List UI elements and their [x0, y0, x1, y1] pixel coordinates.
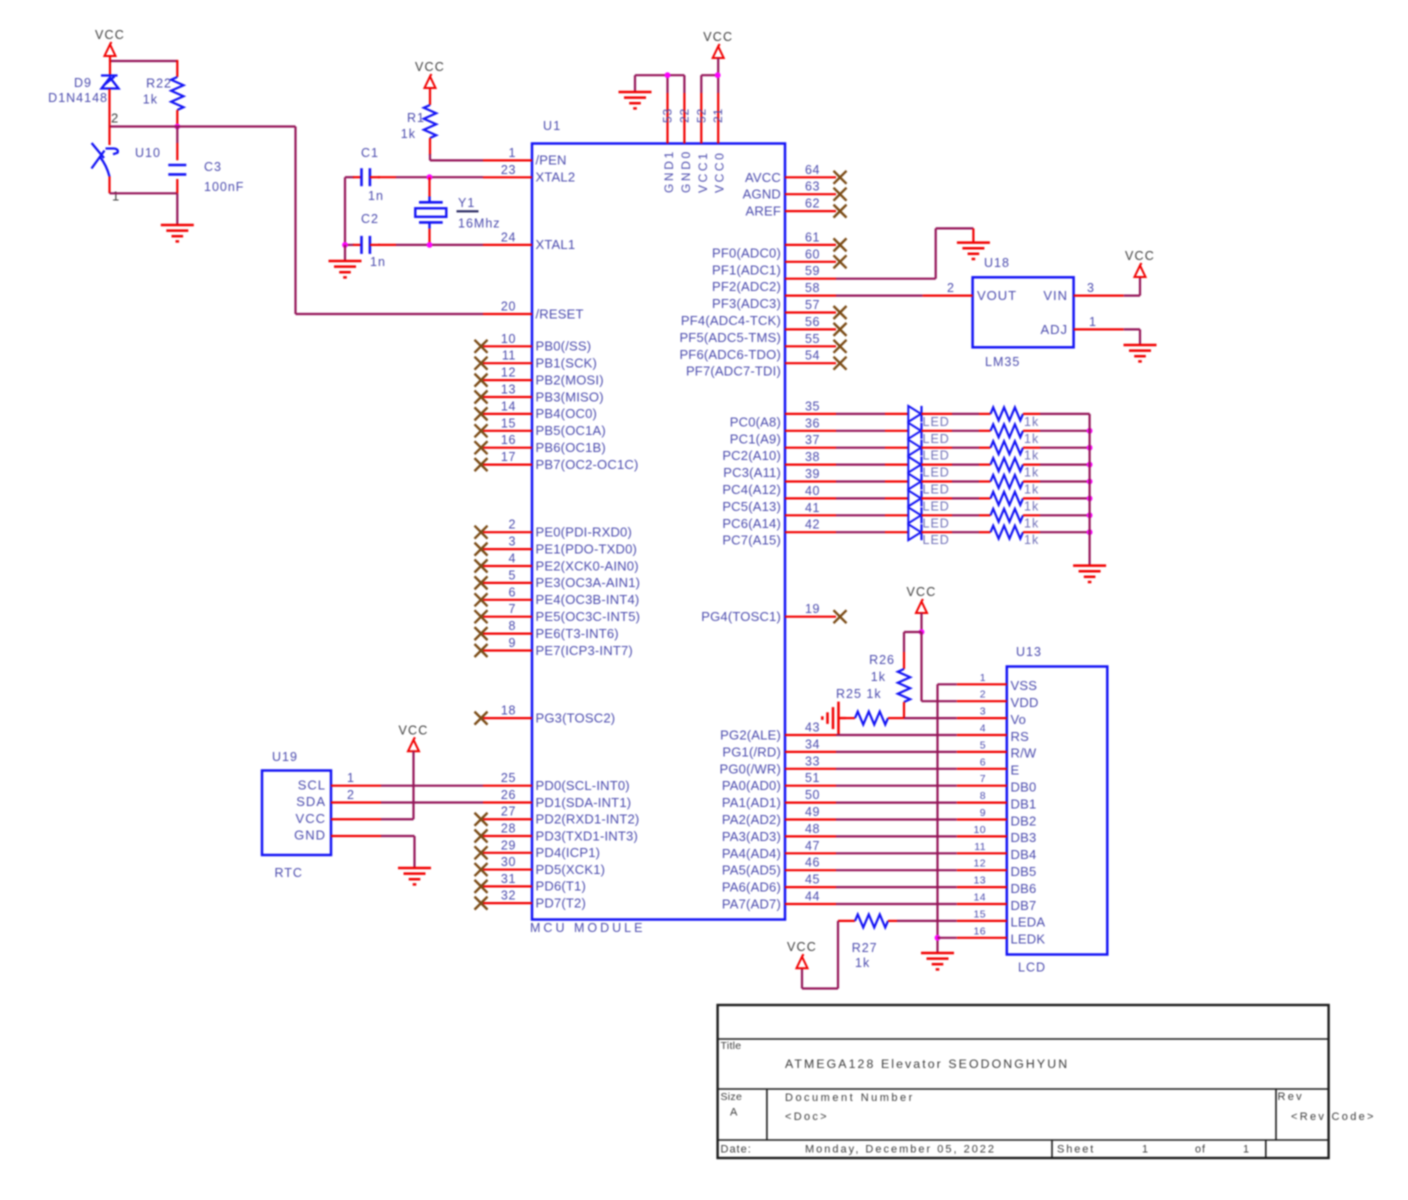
- svg-text:50: 50: [805, 788, 820, 802]
- svg-text:51: 51: [805, 771, 820, 785]
- svg-text:PB0(/SS): PB0(/SS): [536, 339, 592, 354]
- node junction: [919, 629, 925, 635]
- svg-text:2: 2: [947, 281, 955, 295]
- IC U19 RTC: [262, 771, 331, 856]
- svg-text:MCU MODULE: MCU MODULE: [530, 921, 645, 935]
- svg-text:R22: R22: [146, 77, 172, 91]
- svg-text:/RESET: /RESET: [536, 306, 584, 321]
- resistor 1k row 4: [991, 458, 1024, 471]
- VCC symbol above R26: [907, 585, 937, 613]
- IC U18 LM35: [973, 277, 1074, 347]
- VCC symbol lower-left of R27: [787, 940, 817, 968]
- svg-text:38: 38: [805, 450, 820, 464]
- svg-text:1k: 1k: [1024, 466, 1039, 480]
- node junction: [342, 242, 348, 248]
- svg-text:LED: LED: [923, 415, 950, 429]
- VCC symbol above R1: [415, 60, 445, 88]
- svg-text:43: 43: [805, 721, 820, 735]
- diode D9: [101, 76, 119, 89]
- wire PC7 to LED: [836, 531, 885, 533]
- svg-text:PD4(ICP1): PD4(ICP1): [536, 845, 601, 860]
- svg-text:8: 8: [508, 619, 516, 633]
- pin 47 PA4(AD4): [722, 839, 836, 861]
- svg-text:PA7(AD7): PA7(AD7): [722, 897, 781, 912]
- VCC symbol above U19: [399, 723, 429, 751]
- wire: [378, 176, 396, 178]
- pin 3 PE1(PDO-TXD0): [475, 535, 638, 557]
- pin 1 VSS of U13: [957, 672, 1037, 693]
- VCC symbol near U18: [1125, 249, 1155, 277]
- svg-text:1k: 1k: [871, 670, 886, 684]
- svg-text:PE3(OC3A-AIN1): PE3(OC3A-AIN1): [536, 575, 641, 590]
- pin 32 PD7(T2): [475, 889, 587, 911]
- svg-text:52: 52: [694, 108, 708, 123]
- pin 8 DB1 of U13: [957, 790, 1037, 811]
- svg-text:LED: LED: [923, 499, 950, 513]
- svg-text:DB1: DB1: [1011, 796, 1037, 811]
- wire PF3 to U18 VOUT: [836, 295, 923, 297]
- svg-text:12: 12: [974, 858, 986, 870]
- wire: [378, 244, 396, 246]
- pin 5 R/W of U13: [957, 739, 1037, 760]
- pin 48 PA3(AD3): [722, 822, 836, 844]
- svg-text:33: 33: [805, 754, 820, 768]
- resistor 1k row 5: [991, 475, 1024, 488]
- svg-text:46: 46: [805, 856, 820, 870]
- pin 25 PD0(SCL-INT0): [483, 771, 630, 793]
- svg-text:1n: 1n: [368, 189, 384, 203]
- svg-text:PG3(TOSC2): PG3(TOSC2): [536, 710, 616, 725]
- svg-text:29: 29: [501, 838, 516, 852]
- svg-text:5: 5: [508, 568, 516, 582]
- svg-text:PE7(ICP3-INT7): PE7(ICP3-INT7): [536, 643, 633, 658]
- IC U1 MCU MODULE: [532, 144, 785, 920]
- svg-text:LEDA: LEDA: [1011, 915, 1046, 930]
- svg-text:VCC0: VCC0: [713, 151, 727, 193]
- wire: [717, 58, 719, 75]
- svg-text:SDA: SDA: [296, 794, 326, 809]
- svg-text:1: 1: [1243, 1144, 1250, 1156]
- pin 13 PB3(MISO): [475, 383, 604, 405]
- svg-text:20: 20: [501, 300, 516, 314]
- svg-text:1k: 1k: [1024, 449, 1039, 463]
- svg-text:2: 2: [980, 689, 986, 701]
- capacitor C1: [345, 176, 354, 178]
- svg-text:31: 31: [501, 872, 516, 886]
- svg-text:PA3(AD3): PA3(AD3): [722, 829, 781, 844]
- pin 58 PF3(ADC3): [712, 281, 836, 311]
- svg-text:30: 30: [501, 855, 516, 869]
- svg-text:3: 3: [1087, 281, 1095, 295]
- wire R27 to VCC: [837, 921, 839, 989]
- wire: [1023, 413, 1040, 415]
- LED D6: [908, 490, 921, 506]
- wire SDA to PD1: [381, 801, 483, 803]
- svg-text:Sheet: Sheet: [1057, 1144, 1095, 1156]
- svg-text:VCC: VCC: [907, 585, 937, 599]
- pin 56 PF5(ADC5-TMS): [679, 315, 846, 345]
- svg-text:1k: 1k: [855, 956, 870, 970]
- wire: [903, 702, 905, 718]
- wire PF2 to ground: [836, 278, 936, 280]
- svg-text:24: 24: [501, 230, 516, 244]
- svg-text:PB6(OC1B): PB6(OC1B): [536, 440, 606, 455]
- pin 16 LEDK of U13: [957, 925, 1046, 946]
- svg-text:100nF: 100nF: [204, 180, 244, 194]
- pin 42 PC7(A15): [722, 518, 836, 548]
- svg-text:58: 58: [805, 281, 820, 295]
- svg-text:LED: LED: [923, 533, 950, 547]
- wire: [922, 464, 953, 466]
- svg-text:VCC: VCC: [415, 60, 445, 74]
- svg-text:VIN: VIN: [1043, 288, 1068, 303]
- wire: [836, 903, 957, 905]
- svg-text:PB7(OC2-OC1C): PB7(OC2-OC1C): [536, 457, 639, 472]
- svg-text:PF6(ADC6-TDO): PF6(ADC6-TDO): [679, 347, 781, 362]
- svg-text:U19: U19: [272, 750, 298, 764]
- pin 30 PD5(XCK1): [475, 855, 606, 877]
- svg-text:10: 10: [501, 332, 516, 346]
- svg-text:Vo: Vo: [1011, 712, 1027, 727]
- wire: [836, 785, 957, 787]
- svg-text:16Mhz: 16Mhz: [458, 217, 501, 231]
- svg-text:PF3(ADC3): PF3(ADC3): [712, 296, 781, 311]
- svg-text:PD0(SCL-INT0): PD0(SCL-INT0): [536, 778, 630, 793]
- pin 28 PD3(TXD1-INT3): [475, 822, 638, 844]
- svg-text:37: 37: [805, 433, 820, 447]
- pin 4 RS of U13: [957, 723, 1029, 744]
- pin 45 PA6(AD6): [722, 873, 836, 895]
- svg-text:VCC: VCC: [95, 28, 125, 42]
- svg-text:R26: R26: [869, 653, 895, 667]
- resistor 1k row 6: [991, 492, 1024, 505]
- svg-text:2: 2: [347, 788, 355, 802]
- svg-text:RS: RS: [1011, 729, 1030, 744]
- wire: [1023, 497, 1040, 499]
- ground under C2: [329, 261, 362, 277]
- svg-text:C3: C3: [204, 160, 222, 174]
- svg-text:PF5(ADC5-TMS): PF5(ADC5-TMS): [679, 330, 781, 345]
- svg-text:DB0: DB0: [1011, 780, 1037, 795]
- ground top-middle: [619, 92, 652, 108]
- pin 1 SCL of U19: [298, 771, 381, 792]
- svg-text:Title: Title: [721, 1040, 742, 1052]
- svg-text:47: 47: [805, 839, 820, 853]
- pin 53 GND1: [661, 75, 677, 193]
- node junction: [1087, 496, 1093, 502]
- svg-text:1: 1: [508, 146, 516, 160]
- svg-text:1n: 1n: [370, 255, 386, 269]
- svg-text:53: 53: [661, 108, 675, 123]
- svg-text:GND1: GND1: [662, 149, 676, 193]
- svg-text:<Doc>: <Doc>: [785, 1111, 829, 1123]
- svg-text:LEDK: LEDK: [1011, 932, 1046, 947]
- svg-text:59: 59: [805, 264, 820, 278]
- node junction: [715, 72, 721, 78]
- pin 26 PD1(SDA-INT1): [483, 788, 631, 810]
- svg-text:VSS: VSS: [1011, 678, 1038, 693]
- pin 11 DB4 of U13: [957, 841, 1037, 862]
- svg-text:C2: C2: [361, 212, 379, 226]
- svg-text:48: 48: [805, 822, 820, 836]
- svg-text:RTC: RTC: [275, 866, 303, 880]
- resistor R26: [898, 669, 910, 702]
- pin GND of U19: [294, 828, 381, 843]
- svg-text:23: 23: [501, 163, 516, 177]
- svg-text:PE2(XCK0-AIN0): PE2(XCK0-AIN0): [536, 558, 639, 573]
- wire: [922, 480, 953, 482]
- svg-text:49: 49: [805, 805, 820, 819]
- ground right of U18: [1124, 345, 1157, 361]
- svg-text:/PEN: /PEN: [536, 153, 567, 168]
- pin 14 DB7 of U13: [957, 892, 1037, 913]
- svg-text:E: E: [1011, 763, 1020, 778]
- svg-text:<Rev Code>: <Rev Code>: [1291, 1111, 1376, 1123]
- svg-text:PA0(AD0): PA0(AD0): [722, 778, 781, 793]
- VCC symbol top-middle: [703, 30, 733, 58]
- svg-text:63: 63: [805, 180, 820, 194]
- pin 2 SDA of U19: [296, 788, 381, 809]
- svg-text:U18: U18: [984, 256, 1010, 270]
- svg-text:PC2(A10): PC2(A10): [722, 448, 781, 463]
- svg-text:36: 36: [805, 416, 820, 430]
- pin 59 PF2(ADC2): [712, 264, 836, 294]
- svg-text:LED: LED: [923, 516, 950, 530]
- svg-text:11: 11: [502, 349, 516, 363]
- node junction: [1087, 462, 1093, 468]
- wire: [897, 920, 957, 922]
- wire: [922, 413, 953, 415]
- pin 24 XTAL1: [483, 230, 575, 252]
- svg-text:60: 60: [805, 247, 820, 261]
- wire PC2 to LED: [836, 447, 885, 449]
- svg-text:D1N4148: D1N4148: [48, 91, 108, 105]
- wire: [108, 127, 110, 146]
- svg-text:19: 19: [805, 602, 820, 616]
- pin 22 GND0: [677, 75, 693, 193]
- pin 50 PA1(AD1): [722, 788, 836, 810]
- LED D8: [908, 524, 921, 540]
- pin 2 VDD of U13: [957, 689, 1039, 710]
- LED D5: [908, 474, 921, 490]
- pin 19 PG4(TOSC1): [701, 602, 846, 624]
- svg-text:LM35: LM35: [985, 355, 1020, 369]
- node junction: [935, 935, 941, 941]
- svg-text:Date:: Date:: [721, 1144, 752, 1156]
- svg-text:PB3(MISO): PB3(MISO): [536, 389, 604, 404]
- svg-text:1k: 1k: [1024, 499, 1039, 513]
- pin 1 ADJ: [1074, 328, 1124, 330]
- wire: [836, 852, 957, 854]
- svg-text:8: 8: [980, 790, 986, 802]
- node junction: [427, 174, 433, 180]
- svg-text:PD6(T1): PD6(T1): [536, 879, 587, 894]
- svg-text:Monday, December 05, 2022: Monday, December 05, 2022: [805, 1144, 996, 1156]
- IC U13 LCD: [1007, 667, 1108, 955]
- svg-text:1k: 1k: [1024, 516, 1039, 530]
- svg-text:PB5(OC1A): PB5(OC1A): [536, 423, 606, 438]
- svg-text:1k: 1k: [1024, 483, 1039, 497]
- pin 23 XTAL2: [483, 163, 575, 185]
- LED D4: [908, 457, 921, 473]
- svg-text:40: 40: [805, 484, 820, 498]
- svg-text:LCD: LCD: [1018, 961, 1046, 975]
- svg-text:PG4(TOSC1): PG4(TOSC1): [701, 609, 781, 624]
- resistor 1k row 7: [991, 509, 1024, 522]
- svg-text:R25 1k: R25 1k: [836, 687, 882, 701]
- wire to /RESET: [294, 127, 296, 315]
- pin 2 PE0(PDI-RXD0): [475, 518, 633, 540]
- svg-text:1k: 1k: [1024, 533, 1039, 547]
- svg-text:1k: 1k: [1024, 432, 1039, 446]
- LED D1: [908, 406, 921, 422]
- svg-text:PF0(ADC0): PF0(ADC0): [712, 245, 781, 260]
- svg-text:21: 21: [711, 108, 725, 123]
- svg-text:DB5: DB5: [1011, 864, 1037, 879]
- svg-text:R1: R1: [407, 111, 425, 125]
- pin 21 VCC0: [711, 75, 727, 193]
- svg-text:GND0: GND0: [679, 149, 693, 193]
- wire VSS to ground bus: [938, 683, 957, 685]
- wire: [836, 734, 957, 736]
- svg-text:PF2(ADC2): PF2(ADC2): [712, 279, 781, 294]
- svg-text:1k: 1k: [1024, 415, 1039, 429]
- svg-text:VCC: VCC: [703, 30, 733, 44]
- svg-text:45: 45: [805, 873, 820, 887]
- pin 43 PG2(ALE): [720, 721, 836, 743]
- pin 29 PD4(ICP1): [475, 838, 601, 860]
- svg-text:16: 16: [974, 925, 986, 937]
- svg-text:42: 42: [805, 518, 820, 532]
- svg-text:5: 5: [980, 739, 986, 751]
- svg-text:Size: Size: [721, 1091, 743, 1103]
- svg-text:VCC: VCC: [1125, 249, 1155, 263]
- wire: [922, 447, 953, 449]
- svg-text:VDD: VDD: [1011, 695, 1039, 710]
- pin 55 PF6(ADC6-TDO): [679, 332, 846, 362]
- wire VCC U19: [412, 751, 414, 819]
- pin 16 PB6(OC1B): [475, 433, 606, 455]
- svg-text:14: 14: [501, 399, 516, 413]
- svg-text:LED: LED: [923, 449, 950, 463]
- node junction: [665, 72, 671, 78]
- svg-text:39: 39: [805, 467, 820, 481]
- svg-text:14: 14: [974, 892, 986, 904]
- svg-text:PA2(AD2): PA2(AD2): [722, 812, 781, 827]
- svg-text:41: 41: [805, 501, 820, 515]
- svg-text:PG1(/RD): PG1(/RD): [722, 744, 781, 759]
- svg-text:PC4(A12): PC4(A12): [722, 482, 781, 497]
- pin 6 PE4(OC3B-INT4): [475, 585, 640, 607]
- svg-text:9: 9: [980, 807, 986, 819]
- resistor 1k row 8: [991, 526, 1024, 539]
- wire GND U19: [381, 835, 415, 837]
- svg-text:55: 55: [805, 332, 820, 346]
- pin 27 PD2(RXD1-INT2): [475, 805, 640, 827]
- pin 9 DB2 of U13: [957, 807, 1037, 828]
- pin 14 PB4(OC0): [475, 399, 598, 421]
- svg-text:U10: U10: [135, 146, 161, 160]
- wire: [836, 869, 957, 871]
- pin 41 PC6(A14): [722, 501, 836, 531]
- svg-text:56: 56: [805, 315, 820, 329]
- pin 40 PC5(A13): [722, 484, 836, 514]
- svg-text:PD7(T2): PD7(T2): [536, 895, 587, 910]
- svg-text:57: 57: [805, 298, 820, 312]
- svg-text:PC5(A13): PC5(A13): [722, 499, 781, 514]
- wire: [344, 177, 346, 245]
- svg-text:25: 25: [501, 771, 516, 785]
- pin VCC of U19: [296, 811, 381, 826]
- wire: [836, 768, 957, 770]
- svg-text:62: 62: [805, 197, 820, 211]
- svg-text:61: 61: [805, 230, 820, 244]
- svg-text:PG2(ALE): PG2(ALE): [720, 728, 781, 743]
- LED D3: [908, 440, 921, 456]
- pin 17 PB7(OC2-OC1C): [475, 450, 639, 472]
- wire ADJ to ground: [1124, 328, 1140, 330]
- pin 8 PE6(T3-INT6): [475, 619, 619, 641]
- pin 36 PC1(A9): [730, 416, 836, 446]
- svg-text:PE0(PDI-RXD0): PE0(PDI-RXD0): [536, 525, 633, 540]
- svg-text:VCC: VCC: [399, 723, 429, 737]
- wire: [922, 430, 953, 432]
- svg-text:DB6: DB6: [1011, 881, 1037, 896]
- svg-text:34: 34: [805, 737, 820, 751]
- svg-text:Rev: Rev: [1278, 1091, 1304, 1103]
- wire: [922, 531, 953, 533]
- svg-text:PA1(AD1): PA1(AD1): [722, 795, 781, 810]
- node junction: [1087, 445, 1093, 451]
- svg-text:PE1(PDO-TXD0): PE1(PDO-TXD0): [536, 541, 638, 556]
- pin 12 DB5 of U13: [957, 858, 1037, 879]
- svg-text:PD5(XCK1): PD5(XCK1): [536, 862, 606, 877]
- svg-text:PE6(T3-INT6): PE6(T3-INT6): [536, 626, 619, 641]
- svg-text:1k: 1k: [143, 93, 158, 107]
- svg-text:PF1(ADC1): PF1(ADC1): [712, 262, 781, 277]
- svg-text:R/W: R/W: [1011, 746, 1037, 761]
- ground under LED bus: [1073, 566, 1106, 582]
- pin 9 PE7(ICP3-INT7): [475, 636, 633, 658]
- svg-text:Y1: Y1: [458, 196, 475, 210]
- svg-text:VOUT: VOUT: [977, 288, 1017, 303]
- svg-text:1: 1: [112, 189, 120, 204]
- svg-text:PD2(RXD1-INT2): PD2(RXD1-INT2): [536, 812, 640, 827]
- node junction: [1087, 428, 1093, 434]
- wire PC3 to LED: [836, 464, 885, 466]
- svg-text:PB2(MOSI): PB2(MOSI): [536, 372, 604, 387]
- svg-text:XTAL2: XTAL2: [536, 170, 576, 185]
- LED D2: [908, 423, 921, 439]
- svg-text:54: 54: [805, 349, 820, 363]
- wire PC6 to LED: [836, 514, 885, 516]
- wire: [922, 497, 953, 499]
- svg-text:AREF: AREF: [746, 204, 781, 219]
- pin 10 DB3 of U13: [957, 824, 1037, 845]
- svg-text:PC0(A8): PC0(A8): [730, 414, 781, 429]
- svg-text:27: 27: [501, 805, 516, 819]
- svg-text:PD1(SDA-INT1): PD1(SDA-INT1): [536, 795, 632, 810]
- wire: [1023, 447, 1040, 449]
- node junction: [1087, 512, 1093, 518]
- ground under LCD: [921, 953, 954, 969]
- pin 20 /RESET: [483, 300, 584, 322]
- pin 7 PE5(OC3C-INT5): [475, 602, 641, 624]
- ground under U19 area: [398, 868, 431, 884]
- svg-text:12: 12: [501, 366, 516, 380]
- pin 52 VCC1: [694, 75, 710, 193]
- wire: [1023, 464, 1040, 466]
